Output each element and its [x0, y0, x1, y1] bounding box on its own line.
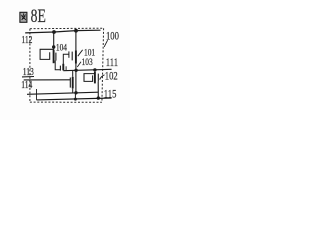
wire: Q105 drain up to net 111 — [72, 70, 74, 77]
title figure-number icon (図 glyph) — [20, 12, 27, 22]
svg-text:104: 104 — [56, 42, 68, 53]
transistor Q104 — [40, 49, 56, 63]
wire: rail jog left — [36, 89, 38, 100]
node dot on net 115 — [74, 98, 77, 101]
label 114 — [21, 79, 32, 90]
node dot 111/Q101 source — [74, 69, 77, 72]
wire: Q101 gate to Q103 drain — [63, 54, 69, 64]
wire: Q102 drain to net 111 — [94, 70, 96, 72]
node dot gate/drain tie — [52, 45, 55, 48]
label 102 — [105, 70, 118, 83]
net 113 stub — [22, 76, 34, 78]
transistor Q105 (lower middle) — [70, 77, 72, 89]
wire: rail jog middle — [74, 93, 76, 99]
svg-text:103: 103 — [82, 56, 93, 67]
title text 8E — [31, 6, 46, 26]
label 100 — [106, 30, 119, 43]
wire: Q102 source down to net 115 — [97, 82, 99, 99]
net 112 rail — [25, 30, 100, 33]
leader for 102 — [100, 75, 105, 80]
node dot bottom rail — [74, 91, 77, 94]
label 103 — [82, 56, 93, 67]
label 101 — [84, 46, 95, 57]
node dot 111/Q102 drain — [93, 68, 96, 71]
transistor Q101 — [72, 50, 76, 63]
svg-text:102: 102 — [105, 70, 118, 83]
transistor Q102 (lower right) — [84, 72, 98, 84]
svg-text:115: 115 — [104, 88, 117, 101]
svg-text:8E: 8E — [31, 6, 46, 26]
dashed enclosure box 100 — [30, 28, 104, 102]
leader for 100 — [104, 40, 107, 47]
label 113 — [23, 66, 34, 77]
node dot 115 junction — [97, 96, 100, 99]
node dot on rail left — [52, 30, 56, 34]
wire: Q101 source down to bottom rail — [75, 64, 77, 93]
wire: drain lead Q101 — [75, 31, 77, 51]
svg-text:100: 100 — [106, 30, 119, 43]
label 115 — [104, 88, 117, 101]
net 114 line to Q105 gate — [24, 79, 71, 81]
Q101 gate wire end bar — [68, 51, 70, 57]
label 111 — [106, 57, 118, 70]
bottom source rail — [27, 92, 99, 94]
node dot on rail right — [74, 29, 78, 33]
net 111 line — [63, 69, 111, 70]
transistor Q103 (middle) — [60, 64, 66, 71]
wire: Q104 source to Q103 gate — [55, 61, 60, 70]
wire: Q105 source to bottom rail — [72, 88, 74, 93]
svg-text:113: 113 — [23, 66, 34, 77]
leader for 103 — [77, 62, 81, 67]
svg-text:114: 114 — [21, 79, 32, 90]
wire: drain lead Q104 — [53, 32, 55, 50]
label 104 — [56, 42, 68, 53]
svg-text:111: 111 — [106, 57, 118, 70]
svg-text:112: 112 — [21, 34, 32, 45]
net 115 line — [37, 98, 112, 100]
leader for 101 — [78, 50, 83, 56]
label 112 — [21, 34, 32, 45]
